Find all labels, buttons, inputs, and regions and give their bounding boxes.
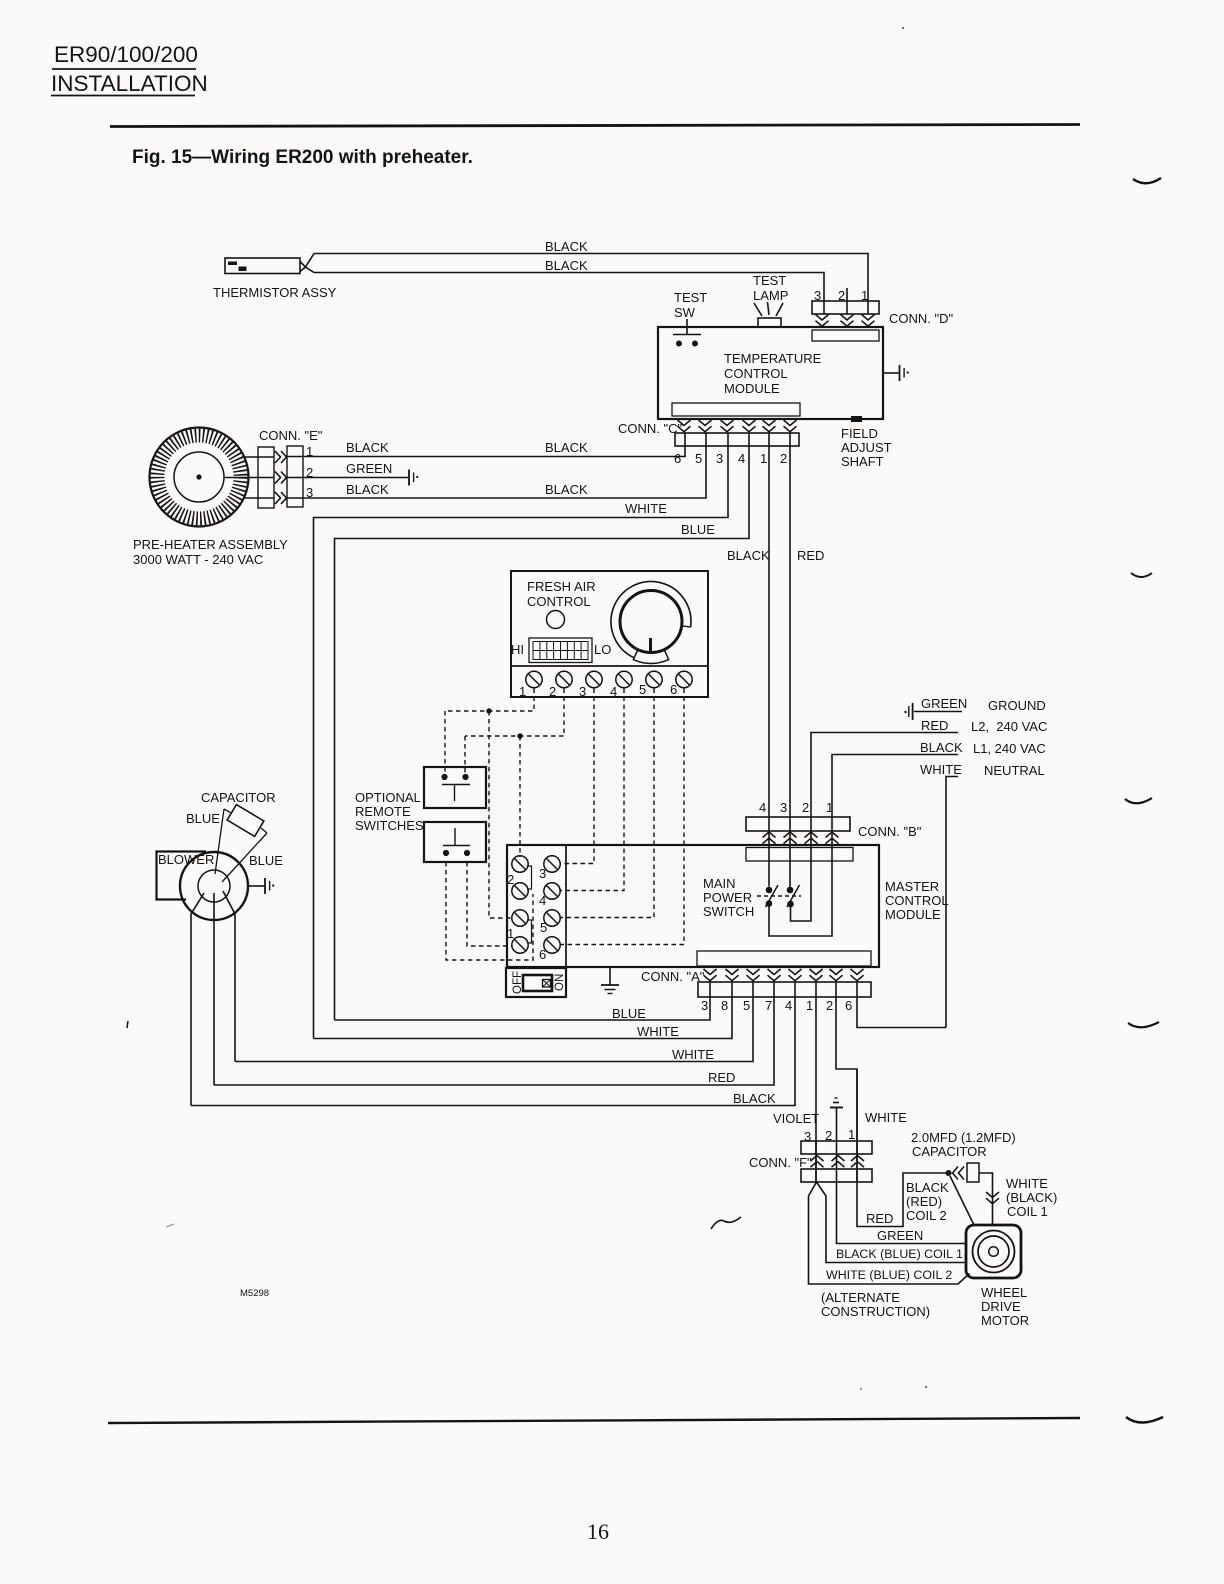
svg-text:BLACK: BLACK [346, 440, 389, 455]
wire white (blue) coil 2 [809, 1196, 970, 1284]
ground below master control module [601, 967, 619, 994]
svg-text:5: 5 [695, 451, 702, 466]
svg-text:L2, 240 VAC: L2, 240 VAC [971, 719, 1047, 734]
thermistor assembly body [225, 254, 314, 274]
wire blue CONN C pin 4 to CONN A pin 3 run [335, 433, 750, 1020]
wire split below CONN F pin 3 [809, 1182, 827, 1196]
wire white CONN A pin 5 to blower [235, 982, 753, 1062]
connector CONN F [749, 1127, 872, 1182]
svg-text:PRE-HEATER ASSEMBLY: PRE-HEATER ASSEMBLY [133, 537, 288, 552]
ground symbol above CONN F pin 2 [830, 1098, 843, 1141]
fresh air slider grid with HI LO labels [511, 638, 611, 663]
fresh air terminal 6 [670, 671, 692, 697]
svg-text:POWER: POWER [703, 890, 752, 905]
svg-text:THERMISTOR ASSY: THERMISTOR ASSY [213, 285, 337, 300]
wire violet CONN A pin 1 to CONN F pin 3 [773, 982, 819, 1182]
svg-text:WHITE: WHITE [920, 762, 962, 777]
svg-text:OPTIONAL: OPTIONAL [355, 790, 421, 805]
svg-text:WHITE: WHITE [1006, 1176, 1048, 1191]
wheel drive motor M1 [966, 1225, 1029, 1328]
svg-text:MODULE: MODULE [885, 907, 941, 922]
dashed wire fresh air terminal 6 to switch bank 6 [560, 689, 684, 945]
svg-text:16: 16 [587, 1519, 609, 1544]
connector CONN D [812, 288, 954, 326]
test lamp [753, 273, 788, 327]
svg-text:2: 2 [549, 684, 556, 699]
svg-text:(BLACK): (BLACK) [1006, 1190, 1057, 1205]
svg-text:1: 1 [507, 926, 514, 941]
svg-text:BLACK: BLACK [346, 482, 389, 497]
svg-text:SWITCH: SWITCH [703, 904, 754, 919]
dashed wire fresh air terminal 1 to switch bank 1 upper [445, 689, 534, 919]
svg-text:WHITE: WHITE [637, 1024, 679, 1039]
svg-text:ER90/100/200: ER90/100/200 [54, 42, 198, 67]
fresh air control knob [611, 582, 691, 664]
svg-text:RED: RED [921, 718, 948, 733]
junction dot on terminal 1 dashed wire [486, 708, 491, 713]
svg-text:CONTROL: CONTROL [885, 893, 949, 908]
svg-text:WHITE: WHITE [865, 1110, 907, 1125]
blower capacitor body [227, 805, 264, 837]
fresh air terminal 3 [579, 671, 602, 699]
svg-text:3: 3 [780, 800, 787, 815]
label optional remote switches [355, 790, 424, 833]
dashed mechanical link of main power switch [757, 895, 801, 897]
svg-text:5: 5 [540, 920, 547, 935]
field adjust shaft [841, 416, 892, 469]
svg-text:BLACK: BLACK [906, 1180, 949, 1195]
switch bank terminal 3 [539, 856, 560, 881]
svg-text:BLACK: BLACK [545, 440, 588, 455]
svg-text:BLACK: BLACK [545, 482, 588, 497]
main power switch contacts pole 2 [787, 885, 800, 907]
wire white CONN C pin 3 to CONN A pin 8 run [314, 433, 729, 1039]
svg-text:ADJUST: ADJUST [841, 440, 892, 455]
svg-text:INSTALLATION: INSTALLATION [51, 71, 208, 96]
wire preheater pin2 green to ground [224, 461, 408, 478]
wire black CONN C pin 1 down to main power switch [727, 433, 770, 887]
svg-text:BLACK (BLUE) COIL 1: BLACK (BLUE) COIL 1 [836, 1247, 963, 1261]
dashed wire fresh air terminal 5 to switch bank 5 [560, 689, 654, 918]
svg-text:BLACK: BLACK [920, 740, 963, 755]
svg-text:5: 5 [639, 682, 646, 697]
svg-text:GROUND: GROUND [988, 698, 1046, 713]
top rule [110, 125, 1080, 127]
svg-text:BLACK: BLACK [545, 258, 588, 273]
svg-text:Fig. 15—Wiring ER200 with preh: Fig. 15—Wiring ER200 with preheater. [132, 147, 473, 168]
svg-text:LAMP: LAMP [753, 288, 788, 303]
svg-text:RED: RED [866, 1211, 893, 1226]
wire black (red) coil 2 diagonal from junction to motor [906, 1176, 974, 1225]
svg-text:3: 3 [701, 998, 708, 1013]
svg-text:BLACK: BLACK [733, 1091, 776, 1106]
wire white CONN A pin 8 run to left [314, 982, 733, 1039]
svg-text:2: 2 [838, 288, 845, 303]
wire white CONN A pin 2 jog to CONN F pin 1 [836, 982, 907, 1182]
scan pen mark [711, 1217, 741, 1229]
wire main power switch pole1 to CONN B pin 1 [769, 831, 832, 936]
OFF ON rocker switch [506, 968, 566, 997]
wire green CONN F pin 2 to motor [837, 1182, 968, 1244]
svg-text:ON: ON [554, 974, 566, 991]
ground at blower right [248, 878, 274, 894]
svg-text:6: 6 [674, 451, 681, 466]
fresh air terminal 5 [639, 671, 662, 697]
fresh air terminal 2 [549, 671, 572, 699]
svg-text:SHAFT: SHAFT [841, 454, 884, 469]
svg-text:CONSTRUCTION): CONSTRUCTION) [821, 1304, 930, 1319]
svg-text:CONTROL: CONTROL [527, 594, 591, 609]
svg-text:3: 3 [716, 451, 723, 466]
connector CONN B [746, 800, 922, 844]
wire black thermistor upper to CONN D pin 1 [314, 239, 868, 314]
scan speck marks [127, 27, 927, 1390]
svg-text:3: 3 [579, 684, 586, 699]
svg-text:(RED): (RED) [906, 1194, 942, 1209]
svg-text:6: 6 [845, 998, 852, 1013]
svg-text:CONN. "A": CONN. "A" [641, 969, 705, 984]
wire blue CONN A pin 3 run to left [335, 982, 711, 1021]
dashed wire remote switch S2 left to switch bank 2 lower [446, 862, 533, 960]
dashed wire remote switch S2 right to switch bank 1 lower [467, 862, 512, 946]
page header text ER90/100/200 [52, 42, 198, 69]
svg-text:BLUE: BLUE [186, 811, 220, 826]
main power switch contacts pole 1 [766, 885, 779, 907]
svg-text:5: 5 [743, 998, 750, 1013]
svg-text:BLOWER: BLOWER [158, 852, 214, 867]
svg-text:4: 4 [785, 998, 792, 1013]
svg-text:DRIVE: DRIVE [981, 1299, 1021, 1314]
svg-text:WHITE (BLUE) COIL 2: WHITE (BLUE) COIL 2 [826, 1268, 952, 1282]
svg-text:GREEN: GREEN [346, 461, 392, 476]
svg-text:GREEN: GREEN [877, 1228, 923, 1243]
scan curl artifact 4 [1128, 1022, 1159, 1027]
wire white (black) coil 1 from capacitor to motor [979, 1173, 1057, 1225]
svg-text:1: 1 [760, 451, 767, 466]
wire red CONN F pin 1 to capacitor junction [857, 1173, 946, 1227]
svg-text:2: 2 [826, 998, 833, 1013]
svg-text:CAPACITOR: CAPACITOR [912, 1144, 987, 1159]
connector CONN C [618, 420, 799, 466]
svg-text:MAIN: MAIN [703, 876, 736, 891]
fresh air control box [511, 571, 708, 697]
preheater assembly heater coil [133, 428, 288, 568]
svg-text:WHEEL: WHEEL [981, 1285, 1027, 1300]
svg-text:CAPACITOR: CAPACITOR [201, 790, 276, 805]
svg-text:NEUTRAL: NEUTRAL [984, 763, 1045, 778]
svg-text:2: 2 [802, 800, 809, 815]
svg-text:LO: LO [594, 642, 611, 657]
svg-text:MODULE: MODULE [724, 381, 780, 396]
capacitor 2.0MFD body with chevrons [953, 1163, 980, 1182]
svg-text:6: 6 [539, 947, 546, 962]
svg-text:4: 4 [759, 800, 766, 815]
wire black (blue) coil 1 [826, 1196, 967, 1263]
capacitor lead wires [215, 809, 267, 882]
svg-text:7: 7 [765, 998, 772, 1013]
wire black thermistor lower to CONN D pin 3 [314, 258, 824, 314]
wire preheater pin1 black to CONN C pin 6 [245, 433, 685, 457]
svg-text:6: 6 [670, 682, 677, 697]
svg-text:FIELD: FIELD [841, 426, 878, 441]
switch bank terminal 6 [539, 937, 560, 962]
svg-text:4: 4 [539, 893, 546, 908]
svg-text:SW: SW [674, 305, 696, 320]
junction dot at capacitor [946, 1170, 952, 1176]
wire red CONN A pin 7 to blower [214, 982, 774, 1085]
dashed wire fresh air terminal 4 to switch bank 4 [560, 689, 624, 891]
svg-text:M5298: M5298 [240, 1288, 269, 1299]
switch bank terminal 1 pair [507, 910, 532, 953]
svg-text:BLACK: BLACK [545, 239, 588, 254]
wire main power switch pole2 to CONN B pin 2 [791, 831, 812, 921]
temperature control module box U1 [658, 327, 883, 419]
svg-text:1: 1 [861, 288, 868, 303]
svg-text:WHITE: WHITE [625, 501, 667, 516]
svg-text:CONN. "E": CONN. "E" [259, 428, 323, 443]
svg-text:3: 3 [814, 288, 821, 303]
svg-text:1: 1 [806, 998, 813, 1013]
svg-text:1: 1 [519, 684, 526, 699]
ground on green wire [409, 470, 418, 486]
svg-text:CONN. "B": CONN. "B" [858, 824, 922, 839]
switch bank terminal 5 [540, 910, 560, 935]
svg-text:RED: RED [797, 548, 824, 563]
blower housing [157, 852, 249, 921]
connector CONN A [641, 969, 871, 1013]
svg-text:CONN. "F": CONN. "F" [749, 1155, 812, 1170]
svg-text:L1, 240 VAC: L1, 240 VAC [973, 741, 1046, 756]
svg-text:VIOLET: VIOLET [773, 1111, 819, 1126]
svg-text:BLUE: BLUE [612, 1006, 646, 1021]
test switch [673, 290, 707, 347]
wire black supply L1 to CONN B pin 1 [832, 740, 1046, 831]
label 2.0MFD capacitor [911, 1130, 1016, 1159]
svg-text:CONN. "D": CONN. "D" [889, 311, 954, 326]
svg-text:SWITCHES: SWITCHES [355, 818, 424, 833]
svg-text:GREEN: GREEN [921, 696, 967, 711]
svg-text:BLUE: BLUE [681, 522, 715, 537]
fresh air terminal 1 [519, 671, 542, 699]
scan curl artifact 5 [1126, 1417, 1163, 1423]
scan curl artifact 1 [1133, 178, 1161, 183]
bottom rule [108, 1418, 1080, 1423]
svg-text:BLUE: BLUE [249, 853, 283, 868]
master control module box [507, 845, 949, 967]
svg-text:MASTER: MASTER [885, 879, 939, 894]
svg-text:2: 2 [780, 451, 787, 466]
wire green supply ground [914, 696, 1046, 713]
scan curl artifact 3 [1125, 798, 1152, 803]
wire black CONN A pin 4 to blower [191, 982, 795, 1106]
svg-text:WHITE: WHITE [672, 1047, 714, 1062]
wires through CONN F body [816, 1069, 857, 1182]
dashed wire fresh air terminal 3 to switch bank 3 [560, 689, 594, 864]
blower motor lead wires [191, 891, 235, 1106]
wire white supply neutral down right side [920, 762, 1045, 1028]
svg-text:CONN. "C": CONN. "C" [618, 421, 683, 436]
svg-text:REMOTE: REMOTE [355, 804, 411, 819]
connector CONN E [258, 428, 323, 508]
switch bank terminal 4 [539, 883, 560, 908]
svg-text:RED: RED [708, 1070, 735, 1085]
svg-text:TEST: TEST [674, 290, 707, 305]
svg-text:4: 4 [610, 684, 617, 699]
junction dot on terminal 2 dashed wire [517, 733, 522, 738]
svg-text:TEMPERATURE: TEMPERATURE [724, 351, 822, 366]
svg-text:FRESH AIR: FRESH AIR [527, 579, 596, 594]
svg-text:COIL 1: COIL 1 [1007, 1204, 1048, 1219]
wire red supply L2 to CONN B pin 2 [811, 718, 1047, 831]
scan curl artifact 2 [1131, 573, 1152, 577]
svg-text:2: 2 [507, 872, 514, 887]
wire preheater pin3 black to CONN C pin 5 [245, 433, 706, 498]
ground symbol at supply green [904, 703, 912, 720]
fresh air terminal 4 [610, 671, 632, 699]
svg-text:4: 4 [738, 451, 745, 466]
label alternate construction [821, 1290, 930, 1319]
svg-text:(ALTERNATE: (ALTERNATE [821, 1290, 900, 1305]
remote switch S2 (lower) [424, 822, 486, 862]
svg-text:COIL 2: COIL 2 [906, 1208, 947, 1223]
svg-text:HI: HI [511, 642, 524, 657]
page header text INSTALLATION [51, 71, 208, 96]
svg-text:1: 1 [848, 1127, 855, 1142]
svg-text:CONTROL: CONTROL [724, 366, 788, 381]
svg-text:8: 8 [721, 998, 728, 1013]
label main power switch [703, 876, 754, 919]
svg-text:3: 3 [539, 866, 546, 881]
wire CONN A pin 6 branch to white neutral [857, 982, 946, 1028]
dashed wire fresh air terminal 2 to switch bank 2 upper [465, 689, 564, 858]
ground at temperature control module right [883, 365, 909, 381]
svg-text:2.0MFD (1.2MFD): 2.0MFD (1.2MFD) [911, 1130, 1016, 1145]
svg-text:TEST: TEST [753, 273, 786, 288]
svg-text:BLACK: BLACK [727, 548, 770, 563]
wire red CONN C pin 2 down to main power switch [790, 433, 824, 888]
switch bank terminal 2 pair [507, 856, 532, 899]
svg-text:3000 WATT - 240 VAC: 3000 WATT - 240 VAC [133, 552, 263, 567]
svg-text:MOTOR: MOTOR [981, 1313, 1029, 1328]
remote switch S1 (upper) [424, 767, 486, 808]
